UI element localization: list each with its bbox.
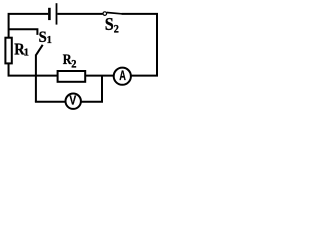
- wire voltmeter to riser up to R2-ammeter node: [81, 76, 102, 102]
- switch S2 terminal circle: [103, 12, 107, 16]
- ammeter U1 circle: [114, 68, 131, 85]
- svg-text:2: 2: [114, 23, 119, 36]
- wire node (R1/S1 junction) to R2: [9, 63, 58, 75]
- wire branch to S1 top terminal: [9, 29, 38, 35]
- svg-text:S: S: [39, 28, 47, 46]
- wire R2 to ammeter: [86, 75, 114, 77]
- svg-text:A: A: [119, 67, 126, 84]
- resistor R1 box: [5, 38, 11, 64]
- svg-text:V: V: [69, 92, 76, 108]
- svg-text:1: 1: [24, 48, 29, 59]
- wire battery to switch S2: [57, 13, 102, 15]
- switch S1 blade (open): [36, 45, 43, 55]
- battery B1 long plate (positive): [56, 3, 58, 24]
- voltmeter U2 circle: [66, 94, 81, 109]
- wire voltmeter branch left segment: [35, 101, 66, 103]
- wire S1 pivot down to voltmeter branch: [35, 55, 37, 102]
- wire top-left corner to battery: [9, 14, 49, 38]
- battery B1 short plate (negative): [48, 8, 51, 20]
- wire S2 to top-right corner down right side to ammeter: [122, 14, 158, 76]
- svg-text:2: 2: [71, 58, 77, 71]
- svg-text:S: S: [105, 14, 114, 34]
- resistor R2 box: [58, 71, 86, 82]
- svg-text:1: 1: [47, 35, 52, 46]
- switch S2 blade: [107, 13, 122, 14]
